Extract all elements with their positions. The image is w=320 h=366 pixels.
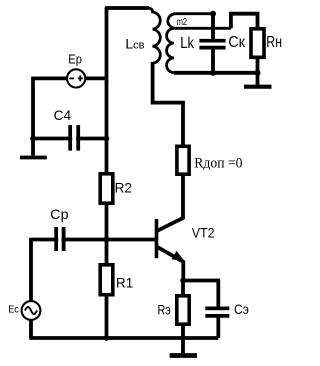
inductor Lk with m2 loop xyxy=(167,14,231,73)
sine wave inside Ec xyxy=(25,307,37,314)
capacitor Ce gap mask xyxy=(203,310,231,313)
svg-text:Cк: Cк xyxy=(228,34,245,51)
svg-text:C4: C4 xyxy=(54,107,72,123)
svg-text:Ep: Ep xyxy=(68,51,82,66)
svg-text:Ec: Ec xyxy=(8,303,19,315)
svg-text:R1: R1 xyxy=(116,274,133,290)
ground GND1 stem xyxy=(31,139,35,156)
wire top horizontal xyxy=(105,6,149,10)
ground GND1 bar xyxy=(20,156,47,160)
svg-text:Lk: Lk xyxy=(180,35,194,52)
svg-text:Rэ: Rэ xyxy=(158,302,171,318)
source Ep (DC) xyxy=(67,69,85,87)
svg-text:Rдоп =0: Rдоп =0 xyxy=(194,156,242,172)
wire emitter diagonal and down xyxy=(157,247,183,281)
resistor Rdop xyxy=(177,146,189,174)
svg-text:m2: m2 xyxy=(177,17,188,28)
capacitor C4 gap mask xyxy=(72,123,76,152)
resistor Re xyxy=(177,296,189,324)
ground GND3 stem xyxy=(181,338,185,353)
wire main left vertical bus xyxy=(105,8,109,338)
wire bottom of tank: Lk bottom line to Rn xyxy=(174,71,258,75)
wire Rn bottom stem to ground xyxy=(256,58,260,85)
transistor VT2 emitter arrow xyxy=(172,252,184,261)
wire C4 horizontal xyxy=(33,137,107,141)
wire Ck bottom stem xyxy=(211,49,215,73)
wire Ck top stem xyxy=(211,14,215,40)
svg-text:VT2: VT2 xyxy=(192,225,215,241)
resistor R2 xyxy=(100,174,113,203)
wire Re top stem xyxy=(181,281,185,296)
svg-text:R2: R2 xyxy=(115,179,133,195)
svg-text:Cp: Cp xyxy=(50,206,69,222)
resistor R1 xyxy=(100,265,113,295)
wire bottom rail xyxy=(29,336,218,340)
wire step to Rn: loop line right, up, over, down xyxy=(231,14,258,29)
ground GND3 bar xyxy=(170,353,197,358)
resistor Rn xyxy=(251,29,264,58)
node junction dots xyxy=(30,11,260,341)
inductor Lsv (coupling coil) xyxy=(147,8,160,63)
capacitor Ck plates xyxy=(199,41,225,48)
wire left vertical Ep to C4 xyxy=(31,77,35,141)
svg-text:Rн: Rн xyxy=(266,34,282,51)
wire Ep branch horizontal xyxy=(33,77,107,81)
capacitor Cp plates xyxy=(56,227,63,251)
capacitor C4 plates xyxy=(70,125,78,151)
wire Cp left corner down to Ec xyxy=(29,238,33,302)
wire Ce bottom stem xyxy=(216,317,220,338)
transistor VT2 base bar xyxy=(155,219,159,258)
capacitor Cp gap mask xyxy=(58,225,61,253)
wire Ec bottom to bottom rail corner xyxy=(29,320,33,338)
wire collector: Rdop bottom to transistor xyxy=(157,175,183,231)
wire emitter junction to Ce branch xyxy=(183,281,218,308)
wire Lsv bottom jog xyxy=(153,62,183,146)
source Ec (AC) xyxy=(22,301,41,320)
capacitor Ce plates xyxy=(205,308,229,316)
ground GND2 bar xyxy=(244,85,272,89)
svg-text:Lсв: Lсв xyxy=(125,36,144,52)
wire base row: Cp to base xyxy=(31,238,155,242)
wire Re bottom stem xyxy=(181,325,185,340)
svg-text:Сэ: Сэ xyxy=(234,302,249,317)
